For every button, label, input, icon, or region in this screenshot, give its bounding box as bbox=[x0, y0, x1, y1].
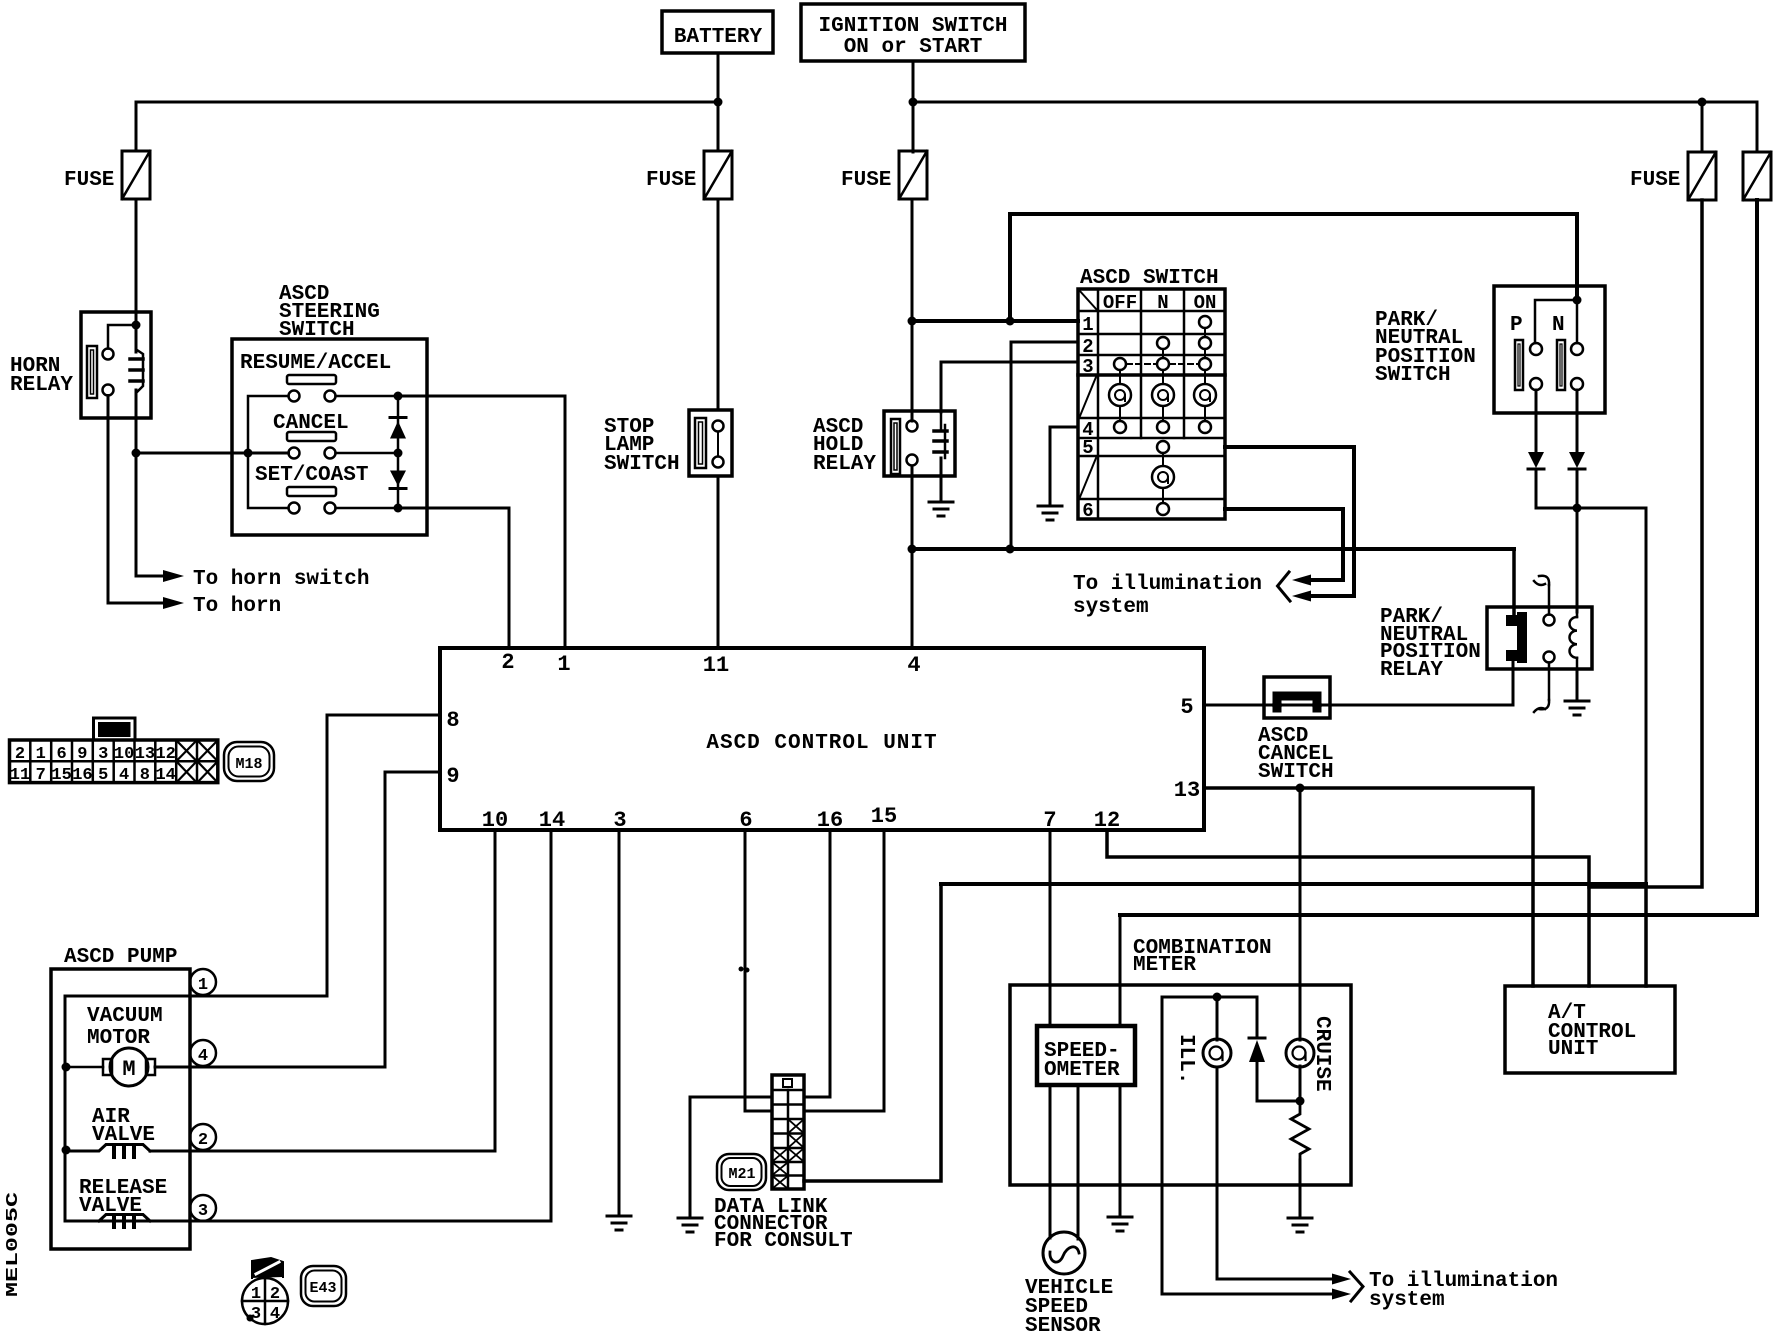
svg-text:1: 1 bbox=[251, 1285, 261, 1304]
svg-text:ON: ON bbox=[1194, 292, 1217, 314]
wire cancel switch to pn relay bbox=[1512, 661, 1515, 705]
ground data link bbox=[678, 1218, 702, 1232]
wire top-left feed bbox=[136, 102, 718, 151]
lamp L3 on bbox=[1194, 384, 1216, 406]
svg-text:CRUISE: CRUISE bbox=[1310, 1016, 1333, 1092]
svg-text:2: 2 bbox=[270, 1285, 280, 1304]
stray mark bbox=[739, 967, 744, 972]
node ignition junction bbox=[909, 98, 918, 107]
chevron illumination bottom bbox=[1350, 1272, 1363, 1301]
svg-text:11: 11 bbox=[703, 653, 729, 678]
svg-text:UNIT: UNIT bbox=[1548, 1038, 1598, 1061]
svg-text:OFF: OFF bbox=[1103, 292, 1137, 314]
svg-text:FUSE: FUSE bbox=[1630, 169, 1680, 192]
diode D4 bbox=[1569, 452, 1585, 469]
svg-text:N: N bbox=[1157, 292, 1168, 314]
svg-text:2: 2 bbox=[501, 650, 514, 675]
svg-text:system: system bbox=[1073, 596, 1149, 619]
svg-text:14: 14 bbox=[155, 766, 175, 785]
diode D5 bbox=[1249, 1038, 1265, 1062]
svg-text:SENSOR: SENSOR bbox=[1025, 1315, 1101, 1338]
svg-text:2: 2 bbox=[1082, 336, 1093, 358]
node right fuse junction bbox=[1698, 98, 1707, 107]
ascd pump P1 bbox=[51, 946, 190, 1249]
svg-text:2: 2 bbox=[198, 1131, 208, 1150]
wire right fuse 1 drop bbox=[1701, 102, 1704, 152]
node pin4 junction bbox=[908, 545, 917, 554]
horn relay K1 bbox=[10, 312, 151, 418]
wire ill branch top bbox=[1162, 996, 1257, 999]
node resume junction bbox=[394, 392, 403, 401]
svg-text:10: 10 bbox=[482, 808, 508, 833]
svg-text:13: 13 bbox=[135, 745, 155, 764]
wire pin 3 to ground bbox=[618, 831, 621, 1215]
speedometer bbox=[1037, 1026, 1135, 1085]
node pn switch junction bbox=[1573, 296, 1582, 305]
wire pin 15 to data link bbox=[804, 831, 884, 1111]
wire N diode to pn relay coil bbox=[1576, 469, 1579, 612]
wire N contact down bbox=[1576, 390, 1579, 452]
wire resistor to ground bbox=[1299, 1160, 1302, 1217]
wire speedometer to sensor bbox=[1077, 1085, 1080, 1239]
wire pin 6 to data link bbox=[745, 831, 772, 1111]
wire ascd switch row5 to illumination bbox=[1225, 447, 1354, 596]
svg-text:3: 3 bbox=[1082, 356, 1093, 378]
wire P contact down bbox=[1535, 390, 1538, 452]
svg-text:P: P bbox=[1510, 314, 1523, 337]
svg-text:ILL.: ILL. bbox=[1174, 1034, 1197, 1084]
svg-text:N: N bbox=[1552, 314, 1565, 337]
svg-text:7: 7 bbox=[1043, 808, 1056, 833]
node hold bus row2 junction bbox=[1006, 545, 1015, 554]
wire steering diode bus bbox=[397, 396, 400, 508]
node pn diode junction bbox=[1573, 504, 1582, 513]
svg-text:FUSE: FUSE bbox=[64, 169, 114, 192]
wire pn relay contact down hook bbox=[1534, 663, 1549, 713]
svg-text:ON or START: ON or START bbox=[844, 36, 983, 59]
svg-text:1: 1 bbox=[36, 745, 46, 764]
wire resume to pin 1 bbox=[398, 396, 565, 648]
lamp CRUISE bbox=[1286, 1039, 1314, 1067]
chevron to illumination bbox=[1278, 572, 1291, 601]
resistor R1 bbox=[1291, 1101, 1309, 1160]
svg-text:SWITCH: SWITCH bbox=[279, 319, 355, 342]
diode D2 bbox=[390, 471, 406, 489]
arrowhead row6 bbox=[1292, 575, 1311, 586]
wire to-horn arrowhead bbox=[163, 597, 184, 609]
svg-text:4: 4 bbox=[198, 1047, 208, 1066]
svg-text:To horn: To horn bbox=[193, 595, 281, 618]
wire pin 7 to speed sensor bbox=[1049, 831, 1052, 1026]
svg-text:SWITCH: SWITCH bbox=[1375, 364, 1451, 387]
svg-text:IGNITION SWITCH: IGNITION SWITCH bbox=[818, 15, 1007, 38]
wire ill lamp top bbox=[1216, 997, 1219, 1040]
release valve V2 bbox=[79, 1177, 167, 1227]
ground pn relay bbox=[1565, 701, 1589, 715]
svg-text:E43: E43 bbox=[309, 1280, 336, 1297]
svg-text:SWITCH: SWITCH bbox=[604, 453, 680, 476]
diode D3 bbox=[1528, 452, 1544, 469]
ascd steering switch S3 bbox=[232, 283, 427, 535]
wire air valve to pin10 bbox=[150, 831, 495, 1151]
node cruise resistor junction bbox=[1296, 1097, 1305, 1106]
wire hold relay output bus bbox=[912, 547, 1514, 551]
svg-text:SET/COAST: SET/COAST bbox=[255, 464, 368, 487]
node motor left junction bbox=[62, 1063, 71, 1072]
wire battery fuse to stop lamp switch bbox=[717, 199, 720, 410]
svg-text:M21: M21 bbox=[728, 1166, 755, 1183]
park/neutral position switch S6 bbox=[1375, 286, 1605, 413]
svg-text:MOTOR: MOTOR bbox=[87, 1027, 150, 1050]
svg-text:To horn switch: To horn switch bbox=[193, 568, 369, 591]
ground pin3 bbox=[607, 1216, 631, 1230]
pump pin 2 circle bbox=[190, 1124, 216, 1150]
svg-text:1: 1 bbox=[1082, 314, 1093, 336]
wire pn relay coil to ground bbox=[1576, 669, 1579, 700]
wire cruise lamp top bbox=[1299, 788, 1302, 1040]
arrowhead ill upper bbox=[1332, 1274, 1351, 1285]
ground cruise bbox=[1288, 1218, 1312, 1232]
svg-text:M: M bbox=[122, 1057, 135, 1082]
svg-text:RELAY: RELAY bbox=[10, 374, 73, 397]
fuse F4 bbox=[1630, 152, 1716, 200]
svg-text:16: 16 bbox=[72, 766, 92, 785]
node horn relay top junction bbox=[132, 321, 141, 330]
vacuum motor M1 bbox=[87, 1005, 163, 1086]
wire setcoast to pin 2 bbox=[398, 508, 509, 648]
combination meter box bbox=[1010, 937, 1351, 1185]
wire pin 8 bbox=[190, 715, 440, 996]
wire ignition down bbox=[912, 61, 915, 152]
node setcoast junction bbox=[394, 504, 403, 513]
wire pin 16 to data link bbox=[804, 831, 830, 1097]
node steering left junction bbox=[244, 449, 253, 458]
air valve V1 bbox=[66, 1106, 155, 1157]
ascd hold relay K2 bbox=[813, 411, 955, 476]
svg-text:8: 8 bbox=[446, 708, 459, 733]
svg-text:3: 3 bbox=[613, 808, 626, 833]
node ignition-ascd row1 junction bbox=[908, 317, 917, 326]
connector quadrant symbol bbox=[242, 1258, 288, 1324]
node air valve junction bbox=[62, 1146, 71, 1155]
wire horn relay to horn switch arrow bbox=[136, 418, 163, 576]
connector M21 oval bbox=[717, 1154, 766, 1190]
wire ill lamp bottom to arrow bbox=[1217, 1067, 1334, 1279]
wire fuse2 line into meter to ground bbox=[1119, 915, 1122, 1026]
node row1 junction bbox=[1006, 317, 1015, 326]
svg-text:4: 4 bbox=[119, 766, 129, 785]
lamp L4 row5 bbox=[1152, 466, 1174, 488]
svg-text:ASCD CONTROL UNIT: ASCD CONTROL UNIT bbox=[706, 732, 937, 755]
wire upper bus to pn switch bbox=[1010, 214, 1577, 321]
wire meter diode branch bbox=[1256, 997, 1259, 1038]
wire P diode to junction bbox=[1536, 469, 1646, 508]
svg-text:RELAY: RELAY bbox=[1380, 659, 1443, 682]
svg-text:4: 4 bbox=[270, 1305, 280, 1324]
svg-text:9: 9 bbox=[77, 745, 87, 764]
wire to-horn-switch arrowhead bbox=[163, 570, 184, 582]
svg-text:6: 6 bbox=[739, 808, 752, 833]
wire battery to junction bbox=[717, 53, 720, 151]
wire right fuse2 down to meter bbox=[1120, 200, 1757, 915]
svg-text:5: 5 bbox=[98, 766, 108, 785]
ascd cancel switch S4 bbox=[1258, 677, 1334, 784]
svg-text:OMETER: OMETER bbox=[1044, 1059, 1120, 1082]
wire stop lamp switch to pin 11 bbox=[717, 476, 720, 648]
svg-text:M18: M18 bbox=[235, 756, 262, 773]
svg-text:RESUME/ACCEL: RESUME/ACCEL bbox=[240, 352, 391, 375]
fuse F1 (horn) bbox=[64, 151, 150, 199]
svg-text:5: 5 bbox=[1180, 695, 1193, 720]
fuse F3 (ignition) bbox=[841, 151, 927, 199]
wire release valve to pin14 bbox=[190, 831, 551, 1221]
svg-text:ASCD PUMP: ASCD PUMP bbox=[64, 946, 177, 969]
svg-text:system: system bbox=[1369, 1289, 1445, 1312]
svg-text:ASCD SWITCH: ASCD SWITCH bbox=[1080, 267, 1219, 290]
svg-text:3: 3 bbox=[98, 745, 108, 764]
svg-text:VACUUM: VACUUM bbox=[87, 1005, 163, 1028]
svg-text:15: 15 bbox=[51, 766, 71, 785]
node cancel junction bbox=[394, 449, 403, 458]
svg-text:7: 7 bbox=[36, 766, 46, 785]
wire ascd switch row4 to ground bbox=[1050, 427, 1078, 505]
wire ignition feed to right fuses bbox=[913, 102, 1757, 152]
connector M18 oval bbox=[224, 742, 274, 781]
pump pin 1 circle bbox=[190, 969, 216, 995]
svg-text:3: 3 bbox=[251, 1305, 261, 1324]
svg-text:BATTERY: BATTERY bbox=[674, 26, 763, 49]
wire motor left bbox=[66, 1066, 103, 1069]
svg-text:2: 2 bbox=[15, 745, 25, 764]
wire horn relay contact to horn arrow bbox=[108, 396, 163, 604]
wire ascd switch row6 to illumination bbox=[1225, 509, 1343, 580]
svg-text:1: 1 bbox=[557, 652, 570, 677]
svg-text:10: 10 bbox=[114, 745, 134, 764]
svg-text:8: 8 bbox=[140, 766, 150, 785]
wire fuse F1 to horn relay bbox=[135, 199, 138, 312]
node ill junction bbox=[1213, 993, 1222, 1002]
arrowhead row5 bbox=[1292, 591, 1311, 602]
wire at bus down to a/t unit bbox=[1644, 884, 1648, 986]
svg-text:6: 6 bbox=[1082, 500, 1093, 522]
lamp L1 off bbox=[1109, 384, 1131, 406]
node horn relay cancel junction bbox=[132, 449, 141, 458]
wire cruise lamp to junction bbox=[1299, 1066, 1302, 1101]
wire data link ground bbox=[690, 1097, 772, 1217]
wire cancel row to horn relay bbox=[136, 452, 289, 455]
ascd control unit U1 bbox=[440, 648, 1204, 830]
wire ascd switch row2 bbox=[1011, 342, 1078, 549]
wire bus to pn relay contact bbox=[1512, 549, 1516, 618]
svg-text:FUSE: FUSE bbox=[646, 169, 696, 192]
svg-text:15: 15 bbox=[871, 804, 897, 829]
svg-text:FUSE: FUSE bbox=[841, 169, 891, 192]
svg-text:13: 13 bbox=[1174, 778, 1200, 803]
wire ignition fuse down to hold relay bbox=[911, 199, 914, 421]
wire right fuse1 down bbox=[1589, 200, 1702, 887]
wire hold relay coil to ground bbox=[940, 458, 943, 502]
svg-text:RELAY: RELAY bbox=[813, 453, 876, 476]
fuse F2 (battery) bbox=[646, 151, 732, 199]
connector M18 grid bbox=[10, 718, 218, 785]
lamp ILL bbox=[1203, 1039, 1231, 1067]
wire ascd switch row1 bbox=[912, 319, 1078, 323]
pump pin 4 circle bbox=[190, 1040, 216, 1066]
wire pin 12 bbox=[1107, 831, 1589, 986]
node battery junction bbox=[714, 98, 723, 107]
a/t control unit U2 bbox=[1505, 986, 1675, 1073]
diode D1 bbox=[390, 418, 406, 439]
ascd switch S5 table bbox=[1078, 267, 1225, 522]
svg-text:16: 16 bbox=[817, 808, 843, 833]
battery B1 bbox=[662, 11, 773, 53]
svg-text:11: 11 bbox=[10, 766, 30, 785]
wire pin 5 to cancel switch bbox=[1204, 704, 1513, 707]
arrowhead ill lower bbox=[1332, 1289, 1351, 1300]
svg-text:FOR CONSULT: FOR CONSULT bbox=[714, 1230, 853, 1253]
svg-text:1: 1 bbox=[198, 976, 208, 995]
wire motor to pin9 bbox=[155, 1066, 385, 1069]
fuse F5 bbox=[1743, 152, 1771, 200]
node pin13 cruise junction bbox=[1296, 784, 1305, 793]
ignition switch S1 bbox=[801, 4, 1025, 61]
lamp L2 n bbox=[1152, 384, 1174, 406]
ground speedometer bbox=[1108, 1217, 1132, 1231]
svg-text:To illumination: To illumination bbox=[1073, 573, 1262, 596]
wire pin 4 bbox=[911, 466, 914, 648]
data link connector J1 bbox=[772, 1075, 804, 1189]
svg-text:3: 3 bbox=[198, 1202, 208, 1221]
data link connector label bbox=[714, 1196, 853, 1253]
wire meter bus to data link bbox=[804, 884, 941, 1181]
park/neutral position relay K3 bbox=[1380, 606, 1592, 682]
wire pn relay contact up hook bbox=[1534, 576, 1549, 615]
connector E43 oval bbox=[301, 1266, 346, 1306]
svg-text:MEL005C: MEL005C bbox=[4, 1192, 23, 1297]
wire pn junction to at unit bbox=[1645, 508, 1648, 884]
wire pin 9 bbox=[385, 772, 440, 1067]
pump pin 3 circle bbox=[190, 1195, 216, 1221]
svg-text:14: 14 bbox=[539, 808, 565, 833]
svg-text:6: 6 bbox=[56, 745, 66, 764]
wire at-unit horizontal bus bbox=[941, 882, 1646, 886]
vehicle speed sensor G1 bbox=[1025, 1232, 1113, 1338]
wire ascd switch row3 to hold relay coil bbox=[941, 362, 1078, 412]
svg-text:5: 5 bbox=[1082, 437, 1093, 459]
wire ill left branch down bbox=[1162, 997, 1334, 1294]
ground row4 bbox=[1038, 506, 1062, 520]
ground hold relay bbox=[929, 502, 953, 516]
stop lamp switch S2 bbox=[604, 410, 732, 476]
svg-text:12: 12 bbox=[155, 745, 175, 764]
svg-text:SWITCH: SWITCH bbox=[1258, 761, 1334, 784]
svg-text:METER: METER bbox=[1133, 954, 1196, 977]
svg-text:4: 4 bbox=[907, 653, 920, 678]
wire pin 13 bbox=[1204, 788, 1533, 986]
svg-text:9: 9 bbox=[446, 764, 459, 789]
wire diode to cruise junction bbox=[1257, 1062, 1300, 1101]
